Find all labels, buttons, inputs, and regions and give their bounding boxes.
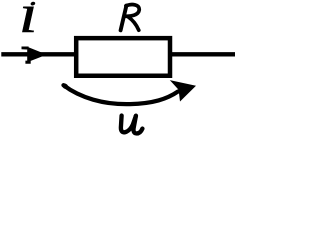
current arrowhead — [22, 47, 47, 64]
label i — [19, 0, 38, 44]
svg-text:ı: ı — [19, 0, 38, 44]
label R — [121, 5, 140, 31]
resistor R1 — [76, 38, 170, 76]
wire right — [172, 52, 235, 56]
wire left — [1, 52, 76, 56]
voltage arc u — [64, 85, 179, 104]
arc start blob — [61, 82, 69, 90]
voltage arrowhead — [170, 80, 196, 101]
label u — [121, 116, 143, 134]
